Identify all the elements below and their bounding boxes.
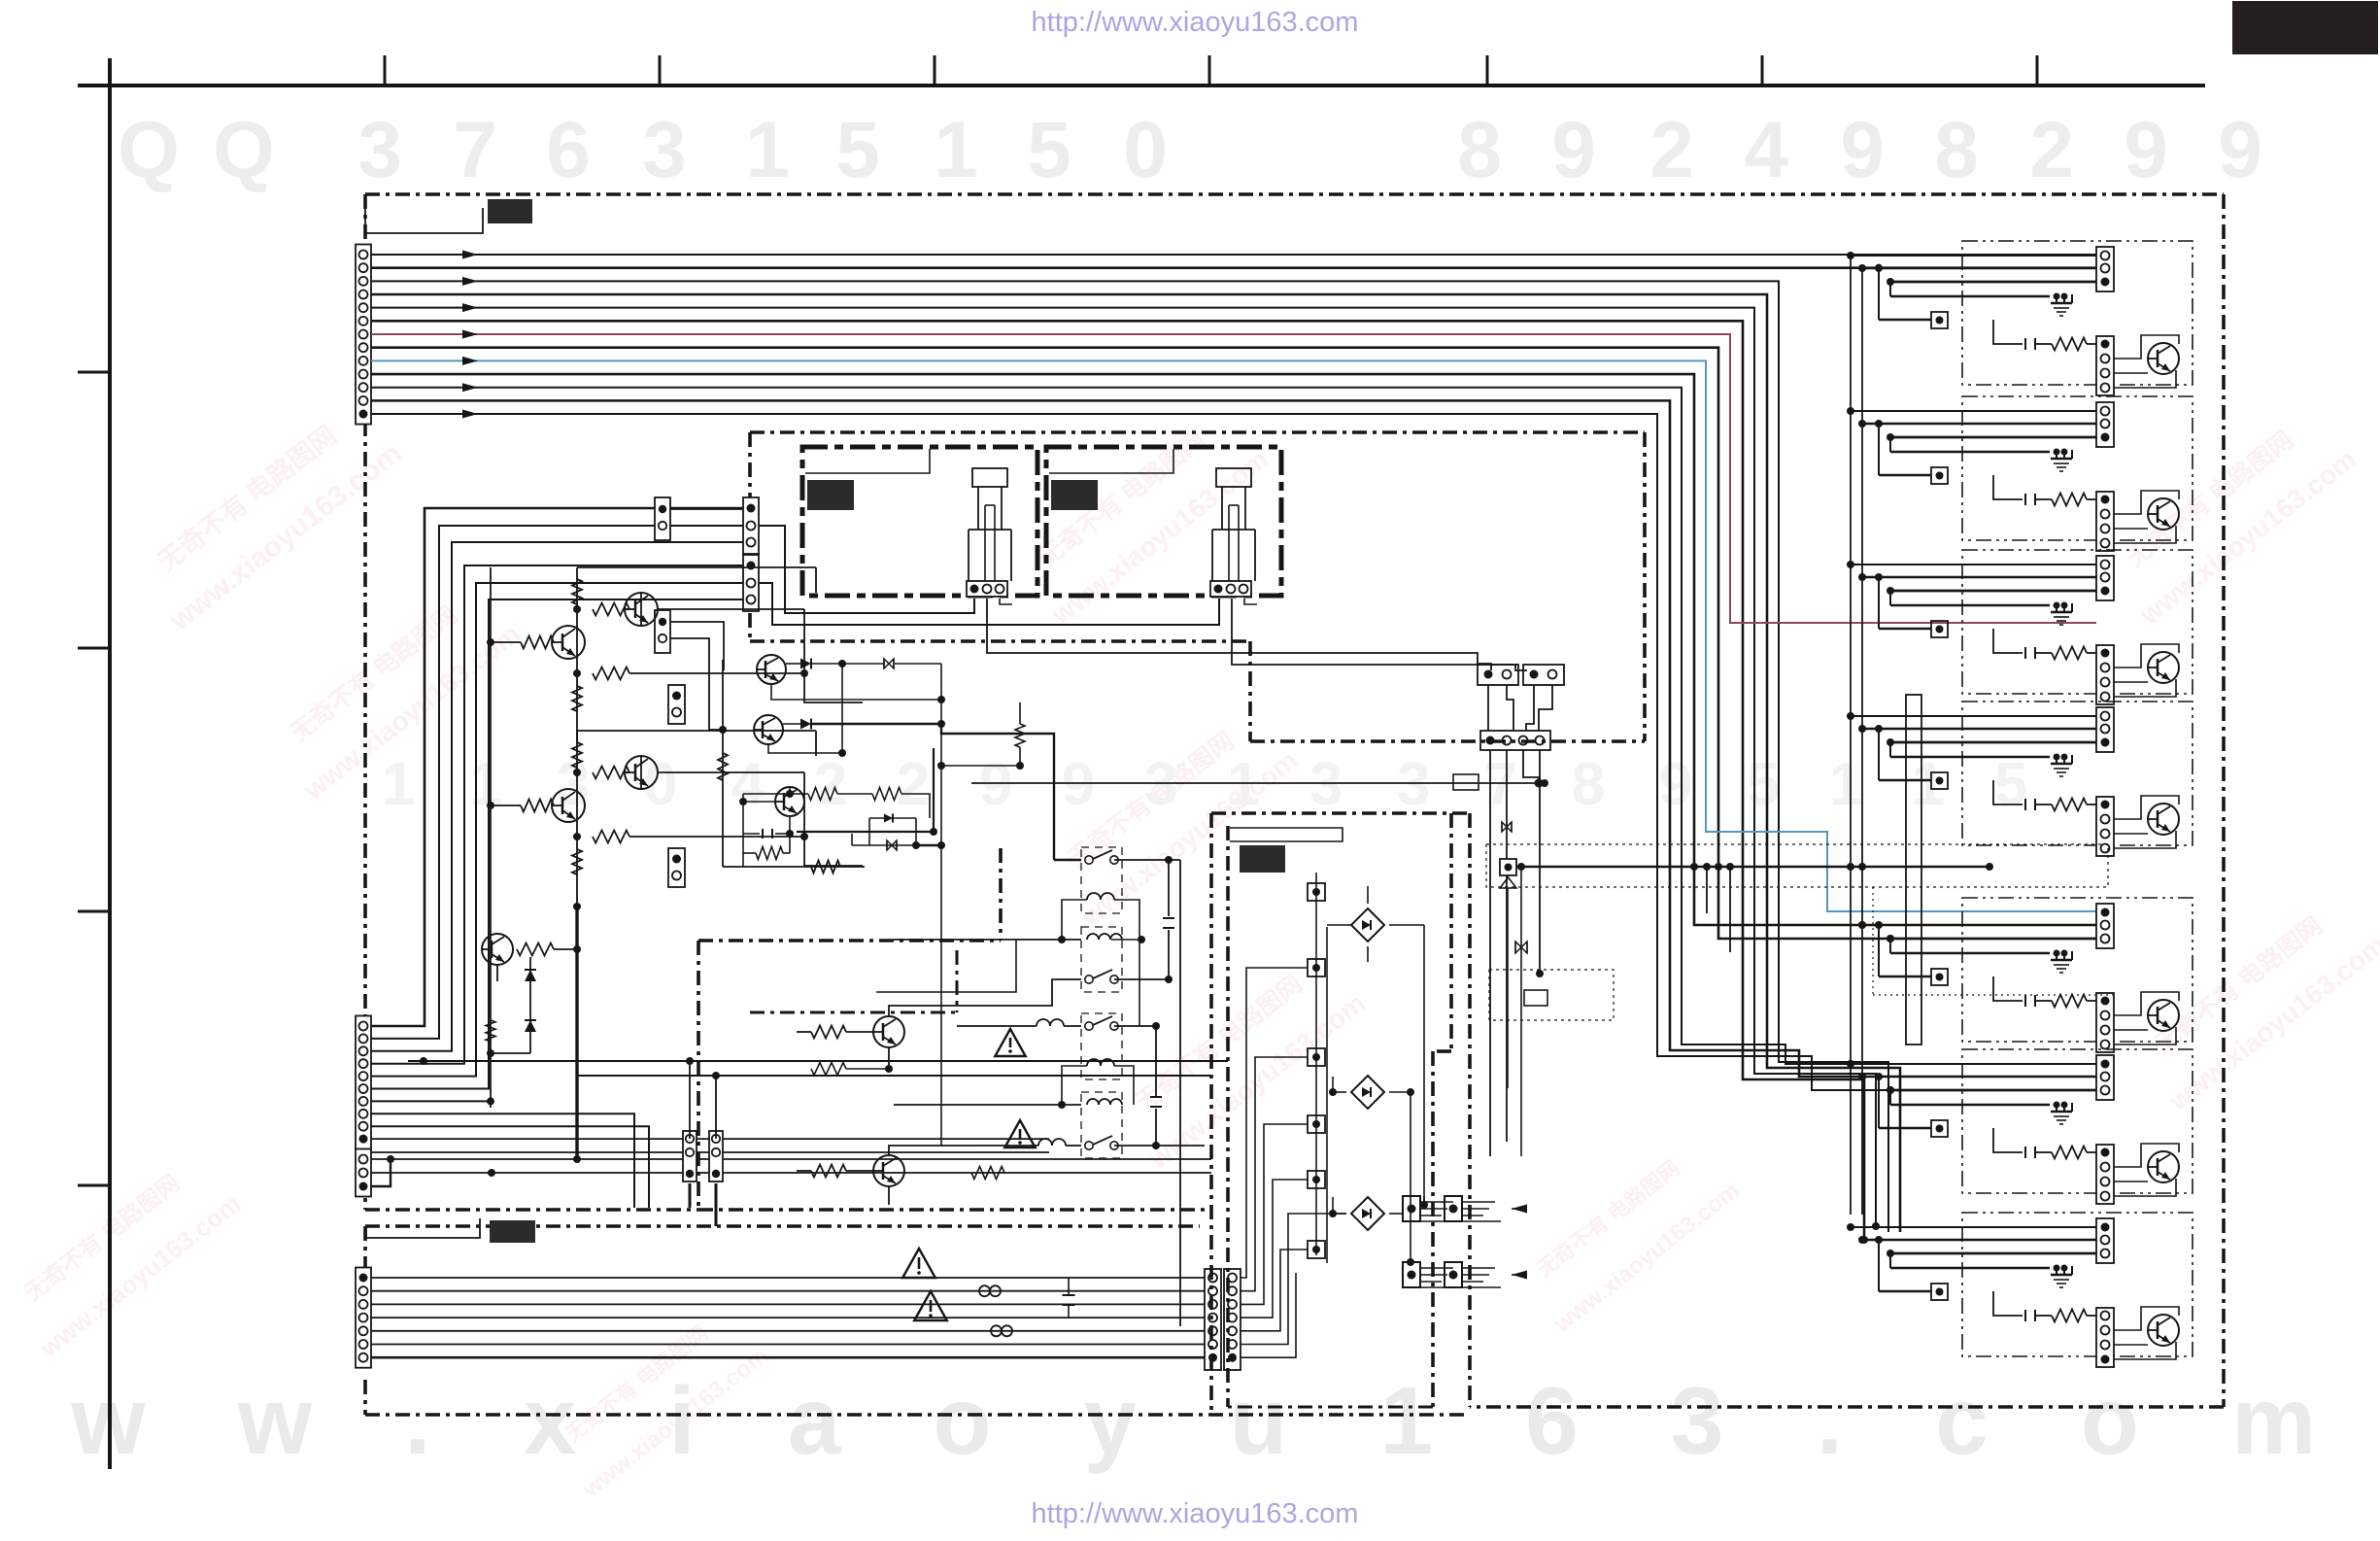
svg-text:1: 1 xyxy=(1829,751,1862,818)
svg-text:3: 3 xyxy=(1309,751,1343,818)
svg-text:2: 2 xyxy=(2029,106,2074,194)
svg-text:9: 9 xyxy=(2124,106,2168,194)
svg-text:4: 4 xyxy=(1744,106,1788,194)
svg-text:1: 1 xyxy=(1227,751,1260,818)
svg-text:3: 3 xyxy=(1144,751,1177,818)
svg-text:8: 8 xyxy=(1457,106,1502,194)
svg-text:3: 3 xyxy=(1397,751,1430,818)
svg-text:0: 0 xyxy=(644,751,677,818)
svg-text:1: 1 xyxy=(934,106,978,194)
svg-text:8: 8 xyxy=(1934,106,1979,194)
svg-text:9: 9 xyxy=(1659,751,1692,818)
svg-text:Q: Q xyxy=(118,106,180,194)
svg-text:5: 5 xyxy=(1747,751,1780,818)
svg-text:3: 3 xyxy=(642,106,687,194)
svg-text:http://www.xiaoyu163.com: http://www.xiaoyu163.com xyxy=(1032,7,1359,38)
svg-text:6: 6 xyxy=(546,106,591,194)
svg-text:2: 2 xyxy=(897,751,930,818)
svg-text:Q: Q xyxy=(213,106,275,194)
svg-text:9: 9 xyxy=(1062,751,1095,818)
svg-text:4: 4 xyxy=(731,751,765,818)
svg-text:w w w . x i a o y u 1 6 3 . c: w w w . x i a o y u 1 6 3 . c o m xyxy=(0,1367,2349,1474)
svg-text:1: 1 xyxy=(745,106,790,194)
svg-text:9: 9 xyxy=(1551,106,1596,194)
svg-text:7: 7 xyxy=(453,106,497,194)
svg-text:1: 1 xyxy=(1912,751,1945,818)
svg-text:0: 0 xyxy=(1123,106,1168,194)
svg-text:9: 9 xyxy=(979,751,1012,818)
svg-text:5: 5 xyxy=(835,106,880,194)
svg-text:8: 8 xyxy=(1572,751,1605,818)
svg-text:5: 5 xyxy=(1027,106,1071,194)
svg-text:2: 2 xyxy=(1649,106,1694,194)
svg-text:http://www.xiaoyu163.com: http://www.xiaoyu163.com xyxy=(1032,1498,1359,1529)
svg-text:3: 3 xyxy=(357,106,402,194)
svg-text:1: 1 xyxy=(469,751,502,818)
svg-text:9: 9 xyxy=(1840,106,1885,194)
svg-text:1: 1 xyxy=(382,751,415,818)
svg-text:9: 9 xyxy=(2218,106,2262,194)
svg-text:2: 2 xyxy=(814,751,847,818)
svg-text:7: 7 xyxy=(1484,751,1517,818)
svg-text:5: 5 xyxy=(1994,751,2027,818)
